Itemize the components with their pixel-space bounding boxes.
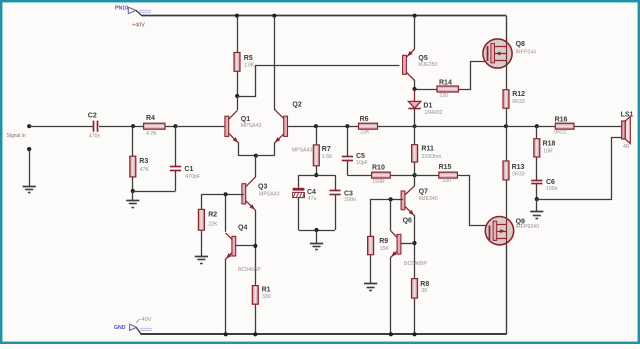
speaker LS1 magnet [622, 121, 626, 139]
transistor Q6 collector diagonal [391, 231, 398, 238]
resistor R18 body [534, 139, 540, 157]
label R2 [208, 212, 218, 228]
wire C4 bottom lead [298, 198, 300, 230]
svg-text:470pF: 470pF [185, 174, 200, 180]
capacitor C2 plates [94, 121, 98, 132]
transistor Q6 bar [397, 234, 401, 254]
node R8/rail [412, 332, 416, 336]
svg-text:Q7: Q7 [419, 188, 428, 195]
label R8 [420, 281, 429, 294]
mosfet Q8 drain stub [495, 46, 507, 48]
svg-text:R14: R14 [439, 79, 452, 86]
node Q7 emitter/Q6 base/R8 [412, 241, 416, 245]
svg-text:Q8: Q8 [516, 41, 525, 48]
resistor R10 body [372, 172, 391, 178]
svg-text:R11: R11 [421, 146, 434, 153]
resistor R9 body [368, 236, 374, 254]
node input ground terminal [27, 147, 31, 151]
label R5 [244, 55, 255, 69]
svg-text:R2: R2 [208, 212, 217, 219]
svg-text:220: 220 [439, 93, 448, 99]
power connector GND label [114, 325, 126, 331]
capacitor C3 plates [329, 191, 340, 195]
node Q4 base tee [253, 244, 257, 248]
label C5 [356, 153, 368, 166]
svg-text:15K: 15K [380, 246, 390, 252]
wire Q2 collector [274, 16, 276, 111]
label C6 [546, 179, 558, 192]
node Q6 emitter/rail [389, 332, 393, 336]
label D1 [423, 103, 442, 117]
svg-text:C1: C1 [184, 166, 193, 173]
svg-text:330: 330 [442, 178, 451, 184]
wire rail to Q5 emitter [414, 16, 416, 49]
node Q4 emitter/rail [224, 332, 228, 336]
node C5 top [345, 124, 349, 128]
svg-text:22K: 22K [208, 222, 218, 228]
label R18 [543, 141, 556, 155]
capacitor C1 plates [170, 167, 181, 171]
node Q7 base/Q6 collector [389, 197, 393, 201]
svg-text:MPSA43: MPSA43 [292, 147, 313, 153]
label Signal in [7, 133, 26, 139]
label R15 [439, 164, 452, 184]
wire cross to output node [415, 126, 506, 128]
wire R4 to node [165, 126, 176, 128]
wire R13 bottom to Q9 [506, 180, 508, 218]
transistor Q4 bar [232, 236, 236, 256]
svg-text:-40V: -40V [140, 317, 152, 323]
transistor Q4 collector diagonal [226, 233, 233, 240]
wire node to C5 node [316, 126, 347, 128]
mosfet Q8 channel bar [491, 44, 495, 63]
wire R9 top [371, 200, 391, 237]
label C3 [344, 191, 356, 204]
ground C3/C4 [310, 244, 323, 250]
node Q2 base/R7 [314, 124, 318, 128]
label R6 [360, 116, 370, 136]
capacitor C4 plus plate [293, 188, 305, 191]
wire C4-C3 bottom bus [299, 230, 336, 232]
power connector PN10 label [115, 6, 128, 12]
svg-text:R3: R3 [139, 158, 148, 165]
label R7 [322, 146, 333, 160]
transistor Q2 bar [284, 116, 288, 136]
svg-text:R15: R15 [439, 164, 452, 171]
transistor Q5 collector diagonal [406, 72, 414, 80]
svg-text:0R33: 0R33 [512, 172, 525, 178]
wire R10 to bias node [390, 175, 414, 177]
ground R2 [195, 257, 208, 264]
wire R14 left [415, 89, 437, 91]
label Q5 [418, 55, 437, 68]
transistor Q7 bar [401, 191, 405, 210]
power connector PN10 triangle [128, 7, 136, 13]
wire Q5 collector down [414, 80, 416, 89]
power connector GND triangle [130, 324, 137, 330]
wire tail to Q3 collector [255, 156, 257, 178]
wire +40V top rail [142, 15, 507, 17]
svg-text:R10: R10 [372, 165, 385, 172]
node input terminal [27, 124, 31, 128]
label R11 [421, 146, 441, 160]
svg-text:BC546BP: BC546BP [404, 261, 427, 267]
svg-text:Q3: Q3 [258, 183, 267, 190]
speaker LS1 cone [625, 116, 630, 143]
wire C5 bottom lead [347, 160, 349, 175]
wire Q1 collector [237, 96, 239, 110]
wire tee to C1 bottom [133, 191, 176, 193]
svg-text:GND: GND [114, 325, 126, 331]
wire node to Q5 base run [237, 66, 399, 97]
node R7 bottom tee [314, 173, 318, 177]
wire input to C2 [29, 126, 93, 128]
node cap ground tee [314, 228, 318, 232]
wire R18 top [536, 126, 538, 139]
mosfet Q8 right bar [506, 47, 508, 61]
wire R3 top [132, 126, 134, 156]
svg-text:MPSA43: MPSA43 [241, 123, 262, 129]
label C4 [307, 189, 317, 202]
svg-text:R16: R16 [555, 116, 568, 123]
ground R9 [364, 284, 377, 291]
wire top rail to Q8 drain [506, 16, 508, 45]
svg-text:MPSA43: MPSA43 [259, 191, 280, 197]
node output R12/R13 [504, 124, 508, 128]
wire D1 bottom lead [414, 109, 416, 126]
wire Q4 emitter down [225, 259, 227, 335]
mosfet Q9 channel bar [493, 221, 497, 240]
svg-text:R4: R4 [146, 115, 155, 122]
wire R7 top [316, 126, 318, 145]
node C2/R3/R4 [131, 124, 135, 128]
wire node to R4 [133, 126, 144, 128]
capacitor C5 plates [342, 157, 353, 161]
transistor Q1 collector diagonal [229, 111, 238, 120]
wire Q3 base [201, 194, 243, 196]
resistor R12 body [503, 90, 509, 109]
mosfet Q8 source stub [495, 60, 507, 62]
transistor Q5 emitter diagonal [406, 49, 414, 57]
svg-text:R5: R5 [244, 55, 253, 62]
wire R14 to Q8 gate [459, 62, 487, 90]
transistor Q7 emitter diagonal [405, 206, 415, 216]
wire R7 bottom [316, 166, 318, 175]
diode D1 cathode bar [408, 108, 420, 110]
resistor R8 body [412, 279, 418, 299]
mosfet Q9 gate bar [489, 226, 491, 241]
wire Q3 emitter down [255, 210, 257, 286]
wire C2 to node [99, 126, 133, 128]
wire Q1 emitter down [238, 143, 240, 156]
mosfet Q8 circle [483, 39, 512, 68]
svg-text:10pF: 10pF [356, 160, 368, 166]
mosfet Q8 gate bar [487, 46, 489, 61]
ground zobel [530, 212, 543, 219]
svg-text:Q4: Q4 [238, 224, 247, 231]
diode D1 triangle [408, 101, 420, 108]
node zobel ground [535, 197, 539, 201]
mosfet Q9 source stub [497, 238, 506, 240]
mosfet Q9 drain stub [497, 224, 506, 226]
label R1 [262, 287, 271, 300]
svg-text:330: 330 [262, 294, 271, 300]
svg-text:C2: C2 [88, 113, 97, 120]
label Q9 [516, 218, 539, 230]
wire R6 to bias cross [378, 126, 415, 128]
node R3/C1 ground tee [131, 189, 135, 193]
capacitor C6 plates [531, 181, 542, 184]
svg-text:39: 39 [421, 288, 427, 294]
svg-text:R18: R18 [543, 141, 556, 148]
net label -40V [136, 317, 151, 323]
svg-text:+40V: +40V [132, 23, 145, 29]
resistor R1 body [252, 286, 258, 305]
svg-text:Q6: Q6 [403, 218, 412, 225]
transistor Q3 emitter diagonal [246, 201, 256, 211]
wire R11 bottom [414, 162, 416, 175]
wire R8 top [414, 243, 416, 279]
transistor Q7 collector diagonal [405, 186, 415, 195]
node R4/C1 [173, 124, 177, 128]
wire LS1 return [537, 138, 622, 200]
wire bias to R11 [414, 126, 416, 145]
transistor Q2 collector diagonal [274, 109, 284, 119]
label R16 [554, 116, 567, 135]
resistor R3 body [130, 156, 136, 177]
node Q5 collector/R14/D1 [413, 87, 417, 91]
wire C5 top lead [347, 126, 349, 156]
wire R16 to LS1 [574, 126, 622, 128]
wire R2 bottom [201, 230, 203, 256]
wire Q6 emitter down [390, 257, 392, 335]
wire R8 bottom [414, 298, 416, 334]
transistor Q5 bar [403, 55, 407, 74]
node bias line cross [413, 124, 417, 128]
mosfet Q8 body stub [495, 52, 507, 56]
svg-text:LS1: LS1 [621, 112, 634, 119]
svg-text:C4: C4 [307, 189, 316, 196]
node zobel top [535, 124, 539, 128]
node diff pair tail [254, 154, 258, 158]
wire R3 bottom [132, 177, 134, 191]
wire R5 to node [237, 71, 239, 96]
svg-text:D1: D1 [423, 103, 432, 110]
node R11/R10/R15/Q7 [413, 173, 417, 177]
transistor Q3 collector diagonal [246, 177, 256, 187]
svg-text:1N4002: 1N4002 [424, 110, 442, 116]
ground R3/C1 [126, 201, 139, 208]
svg-text:4R: 4R [623, 144, 630, 150]
wire Q7 base [391, 199, 403, 201]
transistor Q2 emitter diagonal [275, 133, 285, 143]
label Q1 [241, 116, 262, 129]
wire Q6 base [401, 243, 415, 245]
label Q4 [238, 224, 261, 273]
label Q8 [516, 41, 537, 56]
transistor Q3 bar [242, 184, 246, 204]
wire R15 left [415, 175, 439, 177]
mosfet Q9 circle [485, 217, 513, 245]
svg-text:100n: 100n [344, 197, 356, 203]
svg-text:R13: R13 [512, 164, 525, 171]
svg-text:Signal in: Signal in [7, 133, 26, 139]
wire Q9 drain to bottom rail [506, 245, 508, 335]
wire R15 to Q9 gate [457, 176, 487, 226]
label R10 [372, 165, 385, 185]
node rail/R5 [235, 14, 239, 18]
label R14 [439, 79, 452, 99]
wire Q7 collector up [414, 175, 416, 186]
wire R1 bottom [255, 304, 257, 334]
svg-text:47u: 47u [308, 196, 317, 202]
resistor R2 body [198, 209, 204, 230]
svg-text:MJE340: MJE340 [419, 196, 438, 202]
transistor Q6 emitter diagonal [391, 251, 397, 257]
wire ground stem caps [316, 230, 318, 243]
resistor R7 body [313, 145, 319, 166]
node rail/Q5 emitter [413, 14, 417, 18]
svg-text:100n: 100n [546, 186, 558, 192]
svg-text:IRFP244: IRFP244 [516, 50, 537, 56]
transistor Q1 emitter diagonal [229, 133, 239, 143]
svg-text:Q2: Q2 [292, 102, 301, 109]
svg-text:1.0K: 1.0K [244, 63, 255, 69]
power connector GND ghost [140, 329, 153, 331]
svg-text:PN10: PN10 [115, 6, 128, 12]
svg-text:MJE350: MJE350 [418, 62, 437, 68]
svg-text:1.5K: 1.5K [322, 154, 333, 160]
resistor R16 body [555, 123, 574, 129]
wire node to Q1 base [176, 126, 226, 128]
net label +40V [132, 23, 145, 29]
wire R2 top [201, 194, 203, 209]
svg-text:IRFP9240: IRFP9240 [516, 224, 539, 230]
svg-text:Q5: Q5 [418, 55, 427, 62]
node Q3 base/Q4 collector [224, 192, 228, 196]
resistor R14 body [437, 86, 459, 92]
wire Q7 emitter down [414, 215, 416, 243]
svg-text:0R22: 0R22 [554, 130, 567, 136]
svg-text:470n: 470n [89, 134, 101, 140]
label R9 [379, 238, 389, 252]
wire D1 top lead [414, 89, 416, 101]
wire Q8 source [506, 60, 508, 89]
label R3 [139, 158, 149, 173]
label LS1 [621, 112, 634, 151]
label R4 [146, 115, 157, 137]
resistor R13 body [503, 161, 509, 180]
label Q6 [403, 218, 428, 268]
resistor R5 body [234, 53, 240, 72]
svg-text:220Ohm: 220Ohm [421, 154, 441, 160]
wire C4-C3 top bus [299, 175, 336, 177]
wire Q4 base [236, 245, 256, 247]
wire Q2 base [288, 126, 316, 128]
svg-text:R1: R1 [262, 287, 271, 294]
label C1 [184, 166, 200, 180]
wire R12 bottom [506, 108, 508, 126]
svg-text:R6: R6 [360, 116, 369, 123]
capacitor C4 striped plate [293, 192, 305, 197]
wire Q9 source inner [506, 218, 508, 224]
wire node to R6 [347, 126, 358, 128]
wire bottom rail [141, 333, 507, 335]
power connector PN10 ghost [139, 11, 151, 13]
wire node to R16 [537, 126, 556, 128]
resistor R6 body [359, 123, 378, 129]
resistor R11 body [412, 145, 418, 162]
wire Q6 collector up [390, 199, 392, 231]
svg-text:0R33: 0R33 [512, 99, 525, 105]
node rail/Q2 collector [272, 14, 276, 18]
wire R13 top [506, 126, 508, 161]
wire R18 to C6 [536, 157, 538, 180]
wire input ground stem [29, 149, 31, 186]
wire Q2 emitter to tail node [256, 155, 275, 157]
transistor Q4 emitter diagonal [226, 253, 232, 259]
svg-text:10R: 10R [543, 149, 553, 155]
wire C3 bottom lead [335, 195, 337, 230]
svg-text:BC546BP: BC546BP [238, 267, 261, 273]
svg-text:4.7K: 4.7K [146, 131, 157, 137]
label Q7 [419, 188, 438, 202]
node R1/rail [253, 332, 257, 336]
label C2 [88, 113, 101, 140]
label Q3 [258, 183, 280, 197]
svg-text:R9: R9 [379, 238, 388, 245]
svg-text:R7: R7 [322, 146, 331, 153]
svg-text:22K: 22K [360, 130, 370, 136]
mosfet Q9 body stub [497, 229, 506, 233]
resistor R4 body [144, 123, 165, 129]
svg-text:47K: 47K [140, 167, 150, 173]
node R5/Q1 collector [235, 94, 239, 98]
label R12 [512, 91, 525, 105]
wire C3 top lead [335, 175, 337, 191]
wire Q2 emitter down [274, 143, 276, 156]
wire ground stem R3 [132, 191, 134, 201]
ground input [23, 187, 36, 193]
wire C6 bottom lead [536, 184, 538, 199]
wire C4 top lead [298, 175, 300, 188]
resistor R15 body [439, 172, 458, 178]
svg-text:R12: R12 [512, 91, 525, 98]
wire C1 bottom lead [175, 171, 177, 191]
wire Q9 drain inner [506, 238, 508, 245]
wire output node to zobel [506, 126, 537, 128]
label Q2 [292, 102, 313, 154]
wire C1 top lead [175, 126, 177, 167]
wire C5 to R10 [347, 175, 371, 177]
wire rail to R5 [237, 16, 239, 53]
wire GND to rail [136, 328, 141, 335]
wire Q8 drain inner [506, 40, 508, 47]
wire PN10 to rail [136, 10, 142, 15]
transistor Q1 bar [225, 116, 229, 136]
svg-text:150R: 150R [372, 179, 385, 185]
wire R9 bottom [370, 255, 372, 284]
label R13 [512, 164, 525, 177]
wire ground stem zobel [536, 199, 538, 212]
mosfet Q9 right bar [506, 224, 508, 238]
wire Q4 collector up [225, 194, 227, 232]
svg-text:R8: R8 [420, 281, 429, 288]
wire Q1 emitter to tail node [239, 155, 256, 157]
